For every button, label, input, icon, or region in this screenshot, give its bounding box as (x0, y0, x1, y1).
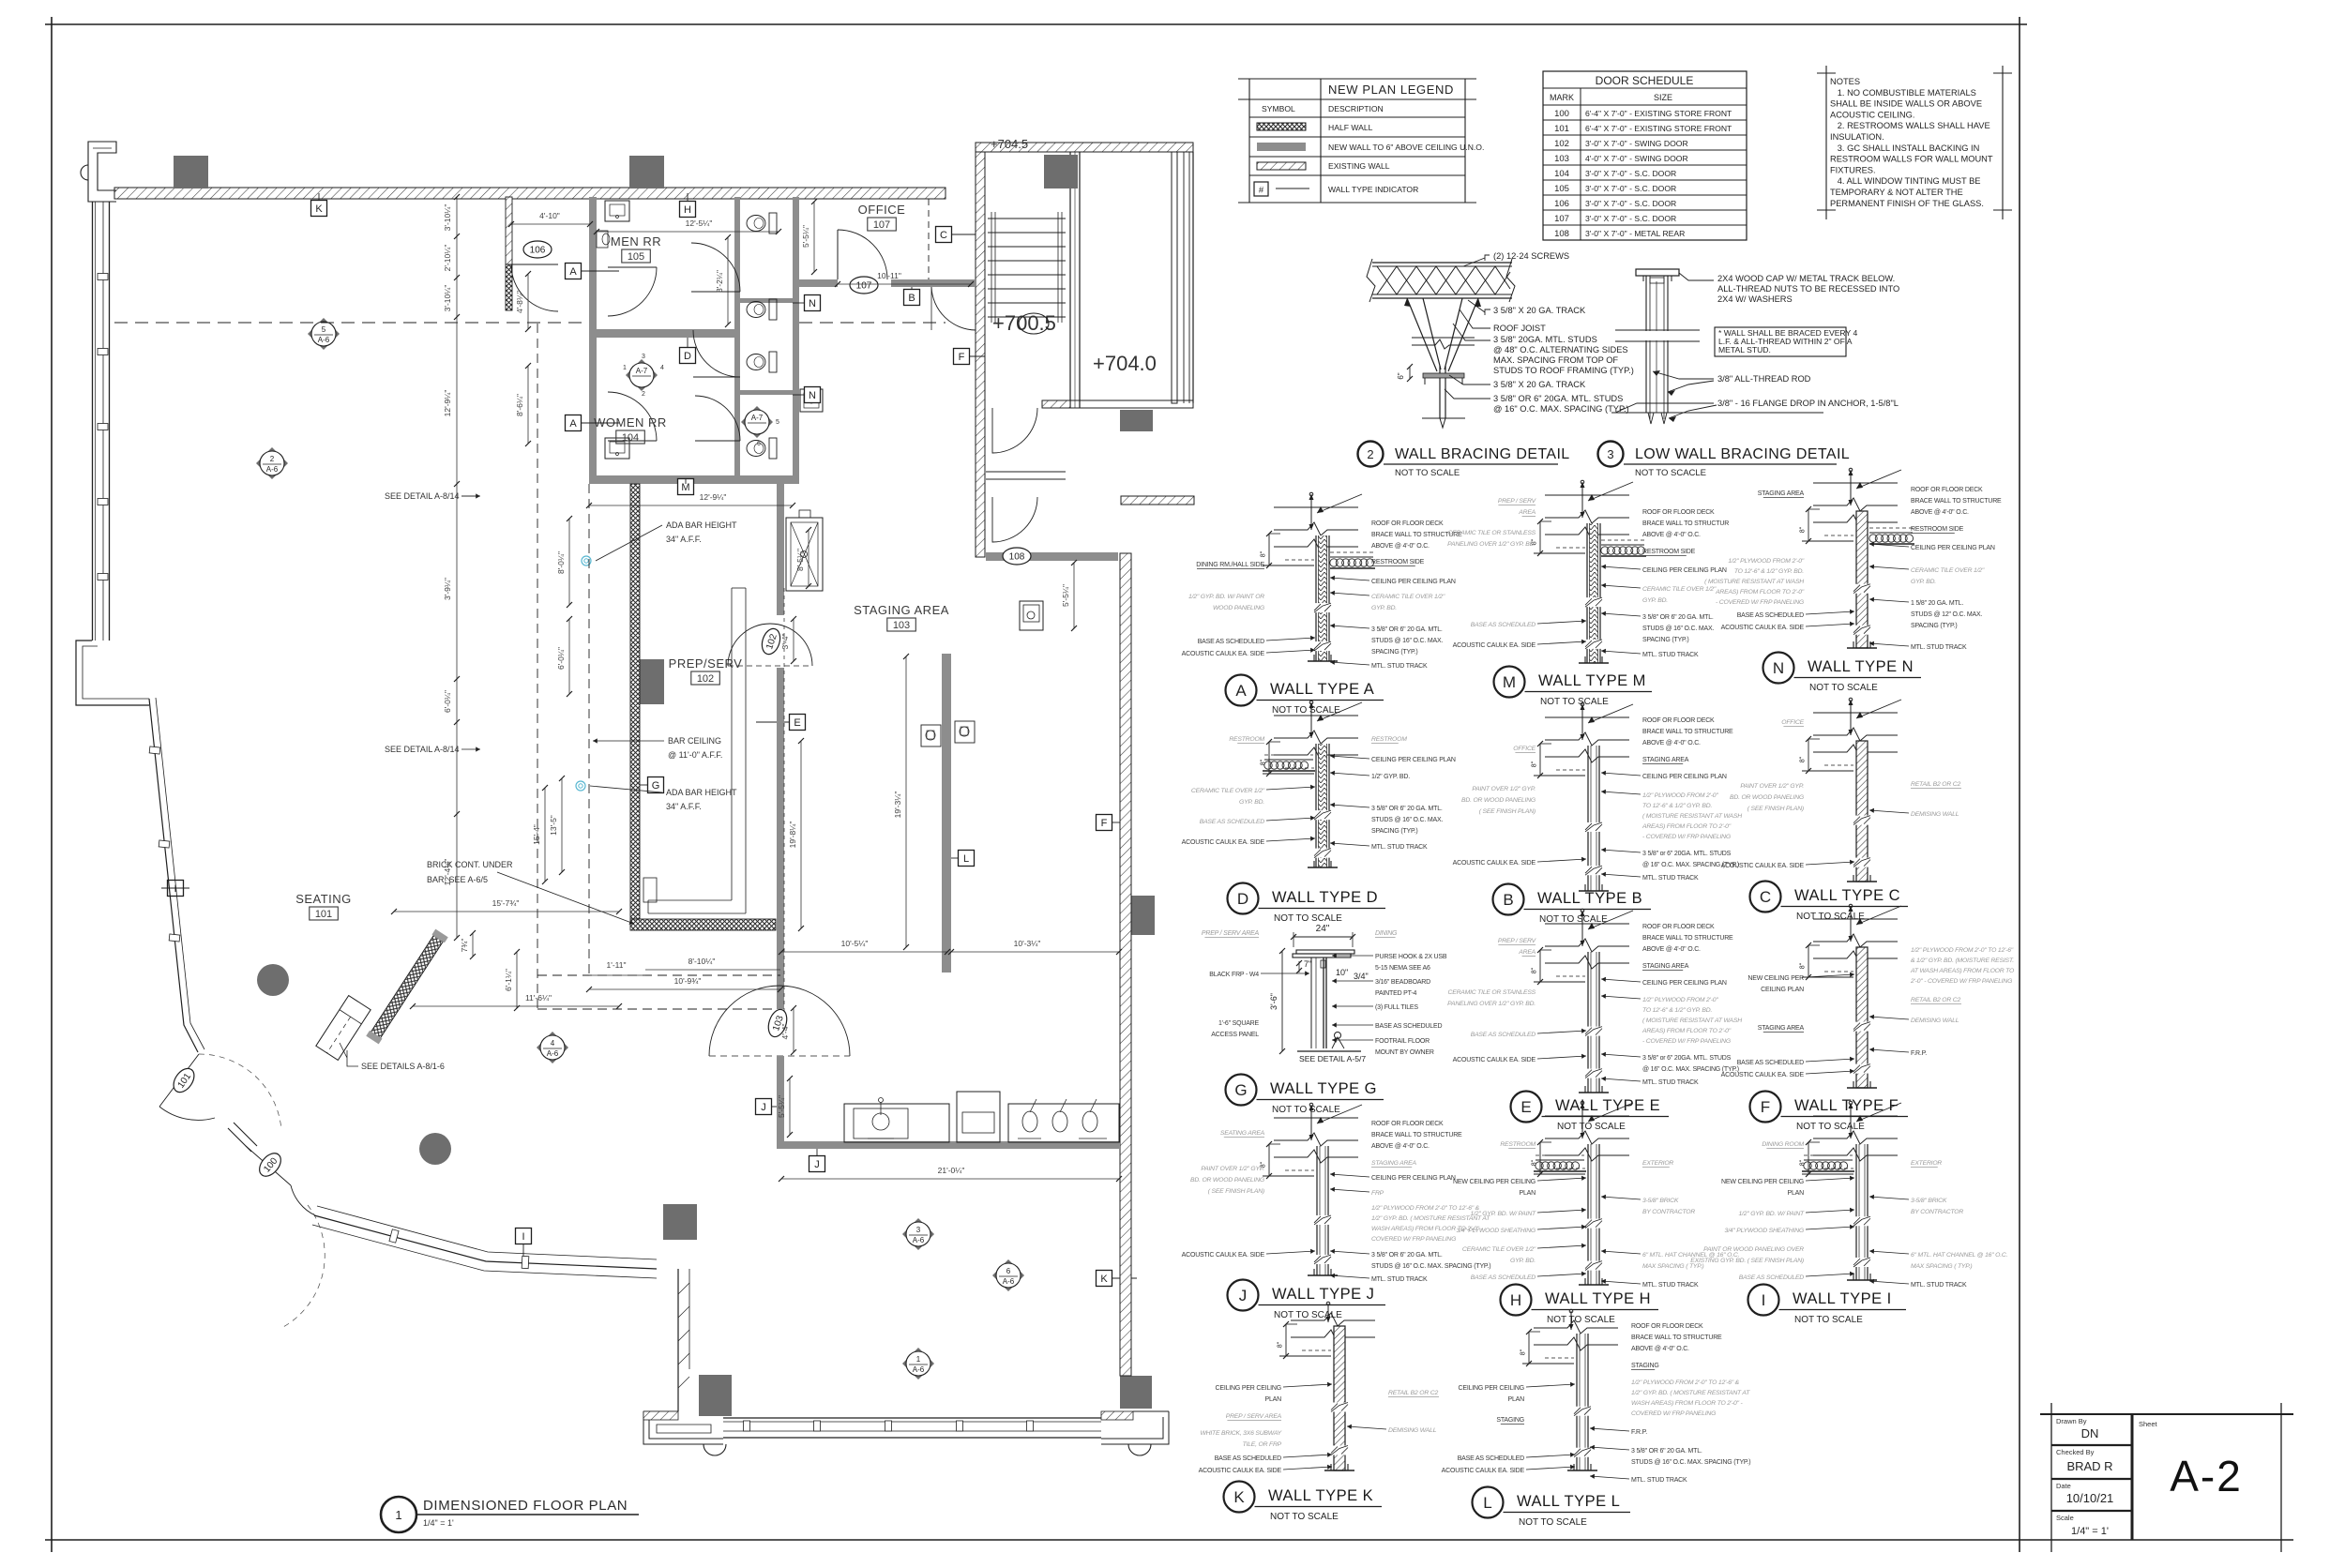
svg-text:PLAN: PLAN (1788, 1190, 1805, 1197)
svg-text:WALL TYPE I: WALL TYPE I (1793, 1290, 1892, 1307)
bracing detail 3 cap leader (1679, 273, 1714, 280)
svg-text:DINING: DINING (1375, 930, 1398, 937)
svg-text:WASH AREAS) FROM FLOOR TO 2'-0: WASH AREAS) FROM FLOOR TO 2'-0" - (1631, 1400, 1744, 1407)
legend half wall row (1257, 123, 1306, 130)
svg-text:AREA: AREA (1518, 949, 1536, 956)
section diamond 1/A-6 (902, 1348, 934, 1380)
svg-text:MARK: MARK (1550, 93, 1574, 102)
svg-text:( SEE FINISH PLAN): ( SEE FINISH PLAN) (1747, 806, 1804, 812)
wall type detail A title (1226, 675, 1257, 706)
restroom east wall (793, 197, 799, 484)
svg-text:- COVERED W/ FRP PANELING: - COVERED W/ FRP PANELING (1716, 599, 1804, 606)
svg-text:WALL TYPE N: WALL TYPE N (1808, 658, 1914, 675)
door 106 oval tag (523, 241, 552, 258)
svg-text:METAL STUD.: METAL STUD. (1718, 345, 1771, 354)
svg-text:AREAS) FROM FLOOR TO 2'-0": AREAS) FROM FLOOR TO 2'-0" (1641, 1028, 1732, 1034)
svg-text:DIMENSIONED FLOOR PLAN: DIMENSIONED FLOOR PLAN (423, 1498, 628, 1514)
sheet border right (2019, 17, 2020, 1552)
svg-text:ACOUSTIC CEILING.: ACOUSTIC CEILING. (1830, 110, 1914, 119)
section diamond A-7 women (741, 406, 773, 438)
svg-text:CEILING PER CEILING: CEILING PER CEILING (1216, 1385, 1282, 1392)
svg-text:SHALL BE INSIDE WALLS OR ABOVE: SHALL BE INSIDE WALLS OR ABOVE (1830, 99, 1982, 109)
svg-text:WALL TYPE L: WALL TYPE L (1517, 1493, 1620, 1510)
new wall south of staging (777, 1141, 1119, 1149)
office south wall east segment (891, 279, 976, 287)
svg-text:G: G (1234, 1081, 1247, 1099)
svg-text:3'-4": 3'-4" (780, 634, 790, 650)
svg-text:2: 2 (270, 455, 275, 463)
svg-text:NEW CEILING PER CEILING: NEW CEILING PER CEILING (1453, 1179, 1536, 1185)
stairs rails (991, 212, 992, 323)
bar dashed bottom lines (537, 974, 780, 976)
svg-text:ACOUSTIC CAULK EA. SIDE: ACOUSTIC CAULK EA. SIDE (1182, 651, 1265, 657)
door schedule row 105 (1543, 194, 1747, 196)
door schedule row 106 (1543, 209, 1747, 211)
seating dark circle 1 (257, 964, 289, 996)
svg-text:2X4 WOOD CAP W/ METAL TRACK BE: 2X4 WOOD CAP W/ METAL TRACK BELOW. (1717, 274, 1895, 283)
svg-text:1: 1 (916, 1355, 921, 1364)
door 101 dashed swing (199, 1054, 281, 1130)
south wall vertical segment (677, 1269, 679, 1411)
svg-text:10'-9¾": 10'-9¾" (674, 976, 702, 986)
door 100 dashed swing (283, 1205, 325, 1327)
svg-text:1/2" GYP. BD. W/ PAINT OR: 1/2" GYP. BD. W/ PAINT OR (1188, 594, 1264, 600)
svg-text:DEMISING WALL: DEMISING WALL (1911, 811, 1959, 818)
svg-text:EXTERIOR: EXTERIOR (1911, 1160, 1942, 1167)
svg-text:5: 5 (322, 325, 326, 334)
svg-text:WALL TYPE INDICATOR: WALL TYPE INDICATOR (1328, 185, 1418, 194)
svg-text:ACOUSTIC CAULK EA. SIDE: ACOUSTIC CAULK EA. SIDE (1721, 1072, 1805, 1078)
diagonal half wall seating (366, 929, 447, 1045)
wall tag D (680, 348, 696, 364)
svg-text:3 5/8" OR 6" 20 GA. MTL.: 3 5/8" OR 6" 20 GA. MTL. (1642, 614, 1714, 621)
svg-text:PAINT OVER 1/2" GYP.: PAINT OVER 1/2" GYP. (1740, 783, 1804, 790)
section diamond A-7 men (626, 359, 658, 391)
svg-text:A: A (569, 418, 577, 430)
svg-text:3 5/8" X 20 GA. TRACK: 3 5/8" X 20 GA. TRACK (1493, 380, 1586, 389)
svg-text:MTL. STUD TRACK: MTL. STUD TRACK (1371, 663, 1428, 670)
left curtain wall top bracket (88, 142, 116, 202)
svg-text:H: H (1510, 1291, 1521, 1309)
bracing detail 3 anchor leader (1615, 403, 1714, 413)
svg-text:105: 105 (628, 251, 644, 263)
left curtain wall bottom jog bracket (76, 641, 149, 705)
svg-text:3'-0" X 7'-0" - S.C. DOOR: 3'-0" X 7'-0" - S.C. DOOR (1585, 199, 1676, 208)
svg-text:1/2" PLYWOOD FROM 2'-0" TO 12': 1/2" PLYWOOD FROM 2'-0" TO 12'-6" (1911, 947, 2014, 954)
svg-text:8": 8" (1532, 967, 1538, 973)
svg-text:BASE AS SCHEDULED: BASE AS SCHEDULED (1458, 1455, 1524, 1462)
svg-text:MTL. STUD TRACK: MTL. STUD TRACK (1371, 844, 1428, 851)
svg-text:@ 48" O.C. ALTERNATING SIDES: @ 48" O.C. ALTERNATING SIDES (1493, 345, 1628, 354)
bracing detail 2 base plate (1423, 373, 1464, 378)
svg-text:PERMANENT FINISH OF THE GLASS.: PERMANENT FINISH OF THE GLASS. (1830, 199, 1984, 208)
dim 3-4 door102 (793, 619, 794, 661)
svg-text:B: B (908, 293, 915, 304)
section diamond 5/A-6 (308, 318, 340, 350)
svg-text:CEILING PER CEILING PLAN: CEILING PER CEILING PLAN (1642, 567, 1727, 574)
svg-text:NOT TO SCALE: NOT TO SCALE (1272, 1105, 1340, 1115)
wall type detail N title (1763, 653, 1794, 684)
svg-text:AREA: AREA (1518, 509, 1536, 516)
wall tag N upper (805, 295, 821, 311)
svg-text:WALL TYPE J: WALL TYPE J (1272, 1286, 1374, 1303)
wall tag F stair (954, 349, 970, 365)
dim 10-3 staging south east (951, 951, 1119, 953)
svg-text:CEILING PLAN: CEILING PLAN (1761, 987, 1804, 993)
svg-text:WALL TYPE H: WALL TYPE H (1545, 1290, 1651, 1307)
svg-text:1'-6" SQUARE: 1'-6" SQUARE (1218, 1020, 1260, 1027)
svg-text:8": 8" (1800, 526, 1807, 533)
svg-text:MOUNT BY OWNER: MOUNT BY OWNER (1375, 1049, 1434, 1056)
left storefront angled band (149, 699, 198, 1052)
svg-text:PLAN: PLAN (1265, 1396, 1282, 1403)
svg-text:MAX SPACING ( TYP.): MAX SPACING ( TYP.) (1642, 1263, 1703, 1270)
svg-text:102: 102 (1554, 139, 1569, 149)
svg-text:RESTROOM SIDE: RESTROOM SIDE (1911, 526, 1964, 533)
svg-text:10": 10" (1336, 968, 1348, 977)
svg-text:103: 103 (1554, 154, 1569, 164)
room 108 door arc upper (992, 408, 1037, 453)
svg-text:SPACING (TYP.): SPACING (TYP.) (1911, 623, 1957, 629)
svg-text:FRP: FRP (1371, 1190, 1384, 1197)
women restroom door arc (608, 440, 657, 442)
wall type detail I title (1748, 1285, 1779, 1316)
svg-text:GYP. BD.: GYP. BD. (1510, 1258, 1536, 1264)
svg-text:5-15 NEMA SEE A6: 5-15 NEMA SEE A6 (1375, 965, 1430, 972)
bracing detail 2 roof truss chords (1372, 262, 1512, 264)
svg-text:EXISTING WALL: EXISTING WALL (1328, 161, 1390, 171)
svg-text:ROOF OR FLOOR DECK: ROOF OR FLOOR DECK (1642, 717, 1715, 724)
svg-text:2'-0" - COVERED W/ FRP PANELIN: 2'-0" - COVERED W/ FRP PANELING (1910, 978, 2012, 985)
door 103 oval tag (765, 1007, 790, 1039)
svg-text:6: 6 (757, 441, 761, 447)
svg-text:NOTES: NOTES (1830, 77, 1860, 86)
svg-text:3 5/8" OR 6" 20 GA. MTL.: 3 5/8" OR 6" 20 GA. MTL. (1371, 806, 1443, 812)
svg-text:3/4" PLYWOOD SHEATHING: 3/4" PLYWOOD SHEATHING (1456, 1228, 1536, 1234)
svg-text:- COVERED W/ FRP PANELING: - COVERED W/ FRP PANELING (1642, 1038, 1731, 1045)
svg-text:ACOUSTIC CAULK EA. SIDE: ACOUSTIC CAULK EA. SIDE (1182, 839, 1265, 846)
svg-text:& 1/2" GYP. BD. (MOISTURE RESI: & 1/2" GYP. BD. (MOISTURE RESIST. (1911, 957, 2014, 964)
svg-text:ALL-THREAD NUTS TO BE RECESSED: ALL-THREAD NUTS TO BE RECESSED INTO (1717, 284, 1899, 294)
svg-text:CEILING PER CEILING: CEILING PER CEILING (1459, 1385, 1525, 1392)
legend wall type indicator row (1254, 182, 1268, 196)
svg-text:WOOD PANELING: WOOD PANELING (1213, 605, 1264, 611)
bar half wall crosshatch vertical (630, 484, 640, 919)
dim 10-11 office (838, 283, 971, 285)
door 101 oval tag (170, 1064, 199, 1095)
svg-text:BASE AS SCHEDULED: BASE AS SCHEDULED (1200, 819, 1265, 825)
svg-text:MTL. STUD TRACK: MTL. STUD TRACK (1911, 1282, 1967, 1289)
dim string left vertical (456, 197, 458, 938)
svg-text:7¾": 7¾" (460, 939, 469, 953)
svg-text:PREP / SERV AREA: PREP / SERV AREA (1202, 930, 1260, 937)
dim 12-9 below restroom (589, 505, 793, 506)
svg-text:19'-8¼": 19'-8¼" (788, 822, 797, 849)
svg-text:( SEE FINISH PLAN): ( SEE FINISH PLAN) (1479, 808, 1536, 815)
wall type detail M drawing (1545, 494, 1629, 496)
stair block south band (1070, 400, 1193, 408)
svg-text:NEW PLAN LEGEND: NEW PLAN LEGEND (1328, 83, 1454, 97)
svg-text:BD. OR WOOD PANELING: BD. OR WOOD PANELING (1730, 794, 1804, 801)
room 108 hatched wall east (1121, 496, 1194, 505)
bracing detail 2 six inch dim (1409, 367, 1411, 379)
svg-text:104: 104 (1554, 169, 1569, 179)
wall tag H (680, 202, 696, 218)
door 103 arc (709, 986, 850, 1056)
stair block east wall (1172, 152, 1177, 403)
svg-text:E: E (794, 717, 800, 729)
svg-text:PAINT OVER 1/2" GYP.: PAINT OVER 1/2" GYP. (1472, 786, 1536, 792)
svg-text:12'-5¼": 12'-5¼" (686, 219, 713, 228)
wall type detail G title (1226, 1075, 1257, 1106)
svg-text:CERAMIC TILE OVER 1/2": CERAMIC TILE OVER 1/2" (1371, 594, 1445, 600)
svg-text:ROOF OR FLOOR DECK: ROOF OR FLOOR DECK (1642, 509, 1715, 516)
svg-text:H: H (684, 204, 691, 216)
svg-text:SEE DETAIL A-8/14: SEE DETAIL A-8/14 (385, 491, 460, 501)
svg-text:107: 107 (873, 219, 890, 231)
svg-text:CERAMIC TILE OR STAINLESS: CERAMIC TILE OR STAINLESS (1448, 989, 1536, 996)
svg-text:34" A.F.F.: 34" A.F.F. (666, 535, 702, 544)
svg-text:BRICK CONT. UNDER: BRICK CONT. UNDER (427, 860, 513, 869)
bar equipment small rect (643, 878, 657, 902)
svg-text:A-6: A-6 (913, 1365, 925, 1374)
stair block mid wall (1069, 152, 1071, 408)
svg-text:I: I (1762, 1291, 1766, 1309)
svg-text:GYP. BD.: GYP. BD. (1911, 579, 1936, 585)
svg-text:STAGING AREA: STAGING AREA (1642, 963, 1689, 970)
svg-text:MTL. STUD TRACK: MTL. STUD TRACK (1911, 644, 1967, 651)
dim 8-0 bar (568, 519, 570, 605)
svg-text:STAGING: STAGING (1631, 1363, 1659, 1369)
left curtain wall glazing (92, 202, 94, 641)
svg-text:BASE AS SCHEDULED: BASE AS SCHEDULED (1198, 639, 1264, 645)
wall tag K east (1097, 1271, 1112, 1287)
svg-text:STAGING AREA: STAGING AREA (1371, 1160, 1416, 1167)
svg-text:102: 102 (697, 673, 714, 685)
svg-text:- COVERED W/ FRP PANELING: - COVERED W/ FRP PANELING (1642, 834, 1731, 840)
svg-text:N: N (809, 390, 816, 401)
bracing detail 2 title (1358, 442, 1384, 467)
svg-text:A: A (569, 266, 577, 278)
svg-text:4. ALL WINDOW TINTING MUST BE: 4. ALL WINDOW TINTING MUST BE (1830, 176, 1980, 186)
svg-text:PANELING OVER 1/2" GYP. BD.: PANELING OVER 1/2" GYP. BD. (1447, 541, 1536, 548)
dim 8-6 hall (527, 366, 529, 444)
south storefront glazing band (723, 1417, 1101, 1419)
svg-text:WALL TYPE M: WALL TYPE M (1538, 672, 1646, 689)
svg-text:ACOUSTIC CAULK EA. SIDE: ACOUSTIC CAULK EA. SIDE (1721, 625, 1805, 631)
svg-text:DEMISING WALL: DEMISING WALL (1388, 1427, 1437, 1434)
svg-text:K: K (315, 204, 323, 215)
svg-text:SEE DETAILS A-8/1-6: SEE DETAILS A-8/1-6 (361, 1062, 445, 1071)
dim 15-7 seating (394, 911, 619, 912)
svg-text:BASE AS SCHEDULED: BASE AS SCHEDULED (1375, 1023, 1442, 1030)
svg-text:STAGING: STAGING (1496, 1417, 1524, 1424)
svg-text:BRACE WALL TO STRUCTURE: BRACE WALL TO STRUCTURE (1371, 1132, 1462, 1138)
svg-text:ABOVE @ 4'-0" O.C.: ABOVE @ 4'-0" O.C. (1371, 543, 1430, 550)
svg-text:SEE DETAIL A-5/7: SEE DETAIL A-5/7 (1299, 1054, 1366, 1063)
svg-text:10'-3¼": 10'-3¼" (1014, 939, 1041, 948)
svg-text:WALL TYPE F: WALL TYPE F (1794, 1097, 1899, 1114)
svg-text:8'-0¼": 8'-0¼" (556, 551, 566, 574)
wall tag N lower (805, 387, 821, 403)
svg-text:F.R.P.: F.R.P. (1911, 1050, 1927, 1057)
door 106 arc (511, 264, 558, 311)
dim 19-3 staging (905, 656, 907, 947)
restroom stall partition 2 (740, 390, 793, 395)
dim 11-6 seating (413, 1005, 619, 1007)
svg-text:( MOISTURE RESISTANT AT WASH: ( MOISTURE RESISTANT AT WASH (1704, 579, 1804, 585)
svg-text:3'-0" X 7'-0" - SWING DOOR: 3'-0" X 7'-0" - SWING DOOR (1585, 139, 1688, 148)
svg-text:8'-10¼": 8'-10¼" (688, 957, 716, 966)
svg-text:A-2: A-2 (2170, 1452, 2243, 1500)
left curtain wall hook (81, 165, 88, 180)
svg-text:21'-0¼": 21'-0¼" (938, 1166, 965, 1175)
svg-text:4'-10": 4'-10" (539, 211, 560, 220)
ceiling soffit dashed line horizontal (114, 322, 589, 324)
svg-text:WALL BRACING DETAIL: WALL BRACING DETAIL (1395, 446, 1570, 462)
bracing detail 2 mid break lines (1412, 337, 1475, 339)
svg-text:TEMPORARY & NOT ALTER THE: TEMPORARY & NOT ALTER THE (1830, 188, 1963, 197)
svg-text:CEILING PER CEILING PLAN: CEILING PER CEILING PLAN (1371, 1175, 1456, 1182)
svg-text:DOOR SCHEDULE: DOOR SCHEDULE (1596, 74, 1694, 87)
wall tag A men (566, 264, 582, 279)
notes block frame (1825, 66, 1827, 219)
svg-text:8'-5¼": 8'-5¼" (795, 549, 805, 571)
svg-text:6'-0¼": 6'-0¼" (556, 647, 566, 670)
svg-text:@ 11'-0" A.F.F.: @ 11'-0" A.F.F. (668, 750, 722, 760)
svg-text:RESTROOM: RESTROOM (1500, 1141, 1536, 1148)
svg-text:ACCESS PANEL: ACCESS PANEL (1211, 1032, 1259, 1038)
section diamond 6/A-6 (992, 1259, 1024, 1291)
svg-text:NOT TO SCALE: NOT TO SCALE (1796, 912, 1865, 922)
svg-text:ROOF OR FLOOR DECK: ROOF OR FLOOR DECK (1911, 487, 1983, 493)
door schedule table frame (1543, 71, 1747, 240)
bar counter edge lines (731, 588, 733, 900)
svg-text:CERAMIC TILE OVER 1/2": CERAMIC TILE OVER 1/2" (1191, 788, 1265, 794)
svg-text:LOW WALL BRACING DETAIL: LOW WALL BRACING DETAIL (1635, 446, 1850, 462)
svg-text:DINING RM./HALL SIDE: DINING RM./HALL SIDE (1196, 562, 1264, 568)
door stop bump left (703, 1444, 726, 1455)
wall tag I storefront (516, 1229, 532, 1244)
svg-text:5'-5¼": 5'-5¼" (801, 225, 810, 248)
svg-text:ROOF OR FLOOR DECK: ROOF OR FLOOR DECK (1371, 1121, 1444, 1127)
svg-text:1/2" GYP. BD.: 1/2" GYP. BD. (1371, 774, 1410, 780)
svg-text:COVERED W/ FRP PANELING: COVERED W/ FRP PANELING (1631, 1410, 1716, 1417)
door schedule row 107 (1543, 224, 1747, 226)
svg-text:6'-1¼": 6'-1¼" (504, 969, 513, 991)
svg-text:RESTROOM SIDE: RESTROOM SIDE (1371, 559, 1425, 565)
sheet border left (51, 17, 53, 1552)
svg-text:ACOUSTIC CAULK EA. SIDE: ACOUSTIC CAULK EA. SIDE (1453, 860, 1536, 867)
room 108 door arc lower (992, 497, 1037, 542)
svg-text:3: 3 (1607, 447, 1613, 461)
legend new wall row (1257, 143, 1306, 151)
toilets (769, 213, 777, 234)
door 100 arc (246, 1146, 291, 1185)
svg-text:NEW CEILING PER: NEW CEILING PER (1747, 975, 1804, 982)
svg-text:( MOISTURE RESISTANT AT WASH: ( MOISTURE RESISTANT AT WASH (1642, 1018, 1742, 1024)
staging freestanding wall L (942, 654, 951, 972)
dim 1-11 bar south (589, 974, 645, 976)
svg-text:ABOVE @ 4'-0" O.C.: ABOVE @ 4'-0" O.C. (1631, 1346, 1689, 1352)
svg-text:OFFICE: OFFICE (1781, 719, 1804, 726)
svg-text:1/2" PLYWOOD FROM 2'-0": 1/2" PLYWOOD FROM 2'-0" (1728, 558, 1804, 565)
svg-text:RETAIL B2 OR C2: RETAIL B2 OR C2 (1911, 997, 1960, 1003)
svg-text:1/2" PLYWOOD FROM 2'-0": 1/2" PLYWOOD FROM 2'-0" (1642, 792, 1718, 799)
south sink counter left unit (844, 1104, 949, 1142)
stair block west wall hatched (976, 152, 985, 557)
svg-text:MEN RR: MEN RR (611, 234, 661, 249)
svg-text:2X4 W/ WASHERS: 2X4 W/ WASHERS (1717, 294, 1793, 304)
svg-text:J: J (761, 1102, 766, 1113)
bracing detail 3 ground line (1611, 412, 1823, 414)
svg-text:1: 1 (623, 365, 627, 371)
svg-text:EXISTING GYP. BD. ( SEE FINISH: EXISTING GYP. BD. ( SEE FINISH PLAN) (1690, 1258, 1804, 1264)
svg-text:TO 12'-6" & 1/2" GYP. BD.: TO 12'-6" & 1/2" GYP. BD. (1734, 568, 1804, 575)
svg-text:103: 103 (893, 620, 910, 631)
svg-text:CEILING PER CEILING PLAN: CEILING PER CEILING PLAN (1642, 774, 1727, 780)
svg-text:NOT TO SCALE: NOT TO SCALE (1272, 705, 1340, 716)
svg-text:3/8" ALL-THREAD ROD: 3/8" ALL-THREAD ROD (1717, 374, 1811, 384)
svg-text:6'-0¼": 6'-0¼" (443, 690, 452, 713)
stair block east glazing lines (1183, 152, 1185, 403)
svg-text:1 5/8" 20 GA. MTL.: 1 5/8" 20 GA. MTL. (1911, 600, 1963, 607)
svg-text:106: 106 (530, 246, 546, 256)
svg-text:3-5/8" BRICK: 3-5/8" BRICK (1642, 1198, 1679, 1204)
svg-text:SIZE: SIZE (1654, 93, 1672, 102)
svg-text:GYP. BD.: GYP. BD. (1371, 605, 1397, 611)
dim 10-5 staging south (781, 951, 947, 953)
door 102 arc (728, 624, 812, 666)
svg-text:WALL TYPE E: WALL TYPE E (1555, 1097, 1660, 1114)
svg-text:J: J (1239, 1287, 1248, 1304)
bracing detail 3 anchor spikes (1648, 413, 1654, 424)
bracing detail 2 leader roof joist (1460, 309, 1490, 328)
svg-text:F.R.P.: F.R.P. (1631, 1429, 1647, 1436)
svg-text:ABOVE @ 4'-0" O.C.: ABOVE @ 4'-0" O.C. (1642, 740, 1701, 746)
svg-text:3-5/8" BRICK: 3-5/8" BRICK (1911, 1198, 1947, 1204)
bracing detail 3 note box (1715, 327, 1846, 356)
wall type detail K title (1224, 1482, 1255, 1513)
svg-text:PREP / SERV: PREP / SERV (1498, 498, 1537, 505)
door schedule row 104 (1543, 179, 1747, 181)
wall tag B (904, 290, 920, 306)
bracing detail 2 leader track top (1468, 300, 1490, 315)
south storefront hatched corner pieces (1101, 1411, 1133, 1420)
svg-text:NOT TO SCALE: NOT TO SCALE (1540, 697, 1609, 707)
svg-text:1/2" PLYWOOD FROM 2'-0": 1/2" PLYWOOD FROM 2'-0" (1642, 997, 1718, 1003)
dim 8-5 shower (808, 530, 809, 586)
svg-text:NOT TO SCALE: NOT TO SCALE (1809, 683, 1878, 693)
svg-text:TILE, OR FRP: TILE, OR FRP (1243, 1441, 1282, 1448)
svg-text:1. NO COMBUSTIBLE MATERIALS: 1. NO COMBUSTIBLE MATERIALS (1830, 88, 1976, 98)
svg-text:8": 8" (1800, 962, 1807, 969)
svg-text:SPACING (TYP.): SPACING (TYP.) (1371, 649, 1417, 656)
svg-text:3'-9¼": 3'-9¼" (443, 578, 452, 600)
host stand rotated rect (316, 996, 371, 1061)
new wall bar east upper (777, 484, 784, 615)
svg-text:24": 24" (1316, 924, 1330, 934)
svg-text:12'-4¼": 12'-4¼" (443, 859, 452, 886)
dim 21-0 south (781, 1178, 1119, 1180)
svg-text:106: 106 (1554, 199, 1569, 209)
svg-text:GYP. BD.: GYP. BD. (1239, 799, 1264, 806)
wall type detail F drawing (1813, 918, 1898, 920)
wall type detail H drawing (1545, 1115, 1629, 1117)
svg-text:BLACK FRP - W4: BLACK FRP - W4 (1209, 972, 1259, 978)
svg-text:WALL TYPE G: WALL TYPE G (1270, 1080, 1377, 1097)
svg-text:11'-6¼": 11'-6¼" (525, 993, 552, 1003)
